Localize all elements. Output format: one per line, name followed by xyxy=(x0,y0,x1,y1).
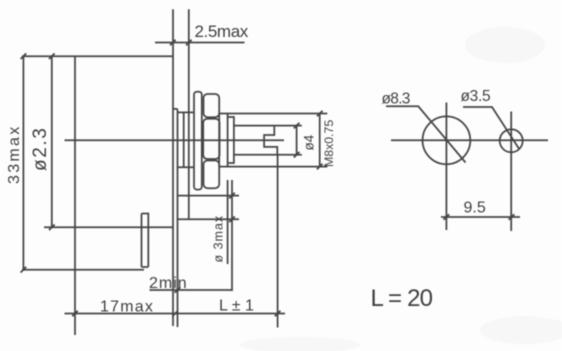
o23 dimension line xyxy=(51,56,53,227)
leader line for o8.3 xyxy=(386,106,466,162)
svg-text:ø8.3: ø8.3 xyxy=(382,91,410,108)
centerline xyxy=(65,139,285,141)
o4 dimension line xyxy=(296,126,298,155)
extension line from body left edge down xyxy=(74,227,76,335)
33max dimension line xyxy=(22,56,24,270)
svg-text:2.5max: 2.5max xyxy=(195,22,249,41)
svg-text:ø 3max: ø 3max xyxy=(212,215,226,263)
hex nut (three facets, side view) xyxy=(204,94,220,117)
33max bottom extension line xyxy=(22,269,144,271)
horizontal centerline of holes xyxy=(391,139,548,141)
tick marks (oblique) xyxy=(21,40,515,317)
big mounting circle o8.3 (rear view) xyxy=(423,116,471,164)
threaded bushing M8 xyxy=(219,114,227,167)
faint scan smudges xyxy=(240,27,562,351)
2min dimension line xyxy=(150,289,233,291)
locating lug edge / 2.5max extension line xyxy=(188,9,190,219)
shaft top edge + o4 extension xyxy=(234,125,302,127)
o3max dimension line xyxy=(227,180,229,264)
M8x0.75 dimension line xyxy=(319,114,321,167)
svg-text:9.5: 9.5 xyxy=(464,200,486,217)
17max and L+-1 shared dimension line xyxy=(65,313,286,315)
bushing top edge + M8 extension line xyxy=(219,113,327,115)
svg-text:2min: 2min xyxy=(149,275,188,292)
bushing bottom edge + M8 extension line xyxy=(219,166,327,168)
svg-text:ø2.3: ø2.3 xyxy=(30,127,51,171)
leader line for o3.5 xyxy=(463,107,520,150)
bracket step ledge xyxy=(173,108,178,110)
bushing boss xyxy=(178,112,195,167)
2.5max dimension line xyxy=(155,42,245,44)
mounting bracket face line xyxy=(177,109,179,327)
shaft bottom edge + o4 extension xyxy=(234,154,302,156)
small hole o3.5 xyxy=(500,129,523,152)
body outline of potentiometer (side view) xyxy=(22,56,173,227)
lug bottom line / o3max extension xyxy=(177,218,239,220)
svg-text:ø4: ø4 xyxy=(302,134,317,150)
svg-text:L = 20: L = 20 xyxy=(371,285,433,312)
vertical centerline small circle xyxy=(510,112,512,232)
svg-text:M8x0.75: M8x0.75 xyxy=(322,120,336,167)
9.5 dimension line xyxy=(441,216,520,218)
shaft end extension line down xyxy=(277,155,279,328)
washer (rounded) xyxy=(194,92,202,190)
o3max / 2min corner extension line xyxy=(231,180,233,291)
svg-text:L ± 1: L ± 1 xyxy=(219,298,254,315)
terminal pin xyxy=(142,214,149,268)
svg-text:17max: 17max xyxy=(100,299,154,316)
bushing front collar xyxy=(228,117,234,163)
svg-text:ø3.5: ø3.5 xyxy=(461,88,491,105)
vertical centerline big circle xyxy=(445,103,447,231)
shaft slot (zigzag) xyxy=(264,126,277,155)
lug top line / o3max extension xyxy=(177,195,239,197)
svg-text:33max: 33max xyxy=(6,124,23,184)
body right edge with extension line up and down xyxy=(172,9,174,326)
